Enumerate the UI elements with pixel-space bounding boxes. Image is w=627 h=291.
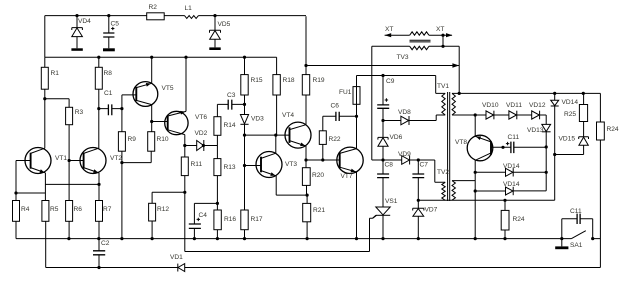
svg-text:R17: R17 bbox=[251, 216, 263, 223]
svg-text:R5: R5 bbox=[50, 206, 59, 213]
svg-text:R12: R12 bbox=[157, 206, 169, 213]
svg-text:VT2: VT2 bbox=[110, 155, 122, 162]
svg-text:VT6: VT6 bbox=[195, 114, 207, 121]
svg-text:VT4: VT4 bbox=[282, 112, 294, 119]
svg-text:R20: R20 bbox=[312, 172, 324, 179]
svg-text:FU1: FU1 bbox=[339, 89, 352, 96]
svg-text:L1: L1 bbox=[185, 5, 193, 12]
svg-text:R16: R16 bbox=[224, 216, 236, 223]
svg-text:VD9: VD9 bbox=[398, 151, 411, 158]
svg-text:TV3: TV3 bbox=[397, 54, 409, 61]
svg-text:R18: R18 bbox=[283, 77, 295, 84]
svg-text:VT7: VT7 bbox=[341, 173, 353, 180]
svg-text:R22: R22 bbox=[329, 136, 341, 143]
svg-text:R19: R19 bbox=[313, 77, 325, 84]
svg-text:SA1: SA1 bbox=[570, 242, 583, 249]
svg-text:VD15: VD15 bbox=[559, 136, 576, 143]
svg-text:R7: R7 bbox=[103, 206, 112, 213]
svg-text:C4: C4 bbox=[199, 212, 208, 219]
svg-text:VD12: VD12 bbox=[529, 102, 546, 109]
svg-text:VD14: VD14 bbox=[562, 99, 579, 106]
svg-text:VD14: VD14 bbox=[503, 181, 520, 188]
svg-text:C1: C1 bbox=[104, 90, 113, 97]
svg-text:R9: R9 bbox=[128, 136, 137, 143]
svg-text:VT5: VT5 bbox=[162, 85, 174, 92]
svg-text:C7: C7 bbox=[420, 162, 429, 169]
svg-text:R13: R13 bbox=[224, 164, 236, 171]
svg-text:R2: R2 bbox=[149, 4, 158, 11]
svg-text:C9: C9 bbox=[386, 78, 395, 85]
svg-text:R8: R8 bbox=[104, 70, 113, 77]
svg-text:C6: C6 bbox=[331, 103, 340, 110]
svg-text:VD8: VD8 bbox=[398, 109, 411, 116]
svg-text:R21: R21 bbox=[313, 207, 325, 214]
svg-text:VD2: VD2 bbox=[195, 130, 208, 137]
svg-text:C3: C3 bbox=[227, 92, 236, 99]
svg-text:VD14: VD14 bbox=[503, 163, 520, 170]
svg-text:C11: C11 bbox=[508, 134, 520, 141]
svg-text:VT1: VT1 bbox=[55, 155, 67, 162]
svg-text:XT: XT bbox=[436, 26, 444, 33]
svg-text:R3: R3 bbox=[75, 109, 84, 116]
svg-text:R10: R10 bbox=[157, 136, 169, 143]
svg-text:VD4: VD4 bbox=[78, 18, 91, 25]
svg-text:VD10: VD10 bbox=[482, 102, 499, 109]
svg-text:VD7: VD7 bbox=[425, 207, 438, 214]
svg-text:R14: R14 bbox=[224, 122, 236, 129]
svg-text:VD13: VD13 bbox=[527, 127, 544, 134]
svg-text:R24: R24 bbox=[607, 126, 619, 133]
svg-text:VD3: VD3 bbox=[251, 116, 264, 123]
svg-text:R11: R11 bbox=[191, 161, 203, 168]
svg-text:VD5: VD5 bbox=[218, 21, 231, 28]
svg-text:R1: R1 bbox=[51, 70, 60, 77]
svg-text:R6: R6 bbox=[74, 206, 83, 213]
svg-text:R24: R24 bbox=[513, 216, 525, 223]
svg-text:R25: R25 bbox=[564, 111, 576, 118]
svg-text:TV2: TV2 bbox=[437, 169, 449, 176]
svg-text:R15: R15 bbox=[251, 77, 263, 84]
svg-text:C11: C11 bbox=[570, 208, 582, 215]
svg-text:TV1: TV1 bbox=[437, 83, 449, 90]
svg-text:VT3: VT3 bbox=[285, 161, 297, 168]
svg-text:VD1: VD1 bbox=[170, 254, 183, 261]
svg-text:VD11: VD11 bbox=[506, 102, 522, 109]
svg-text:VS1: VS1 bbox=[385, 198, 398, 205]
svg-text:XT: XT bbox=[385, 26, 393, 33]
svg-text:C8: C8 bbox=[385, 162, 394, 169]
svg-text:C5: C5 bbox=[111, 21, 120, 28]
svg-text:R4: R4 bbox=[21, 206, 30, 213]
svg-text:VT8: VT8 bbox=[455, 139, 467, 146]
svg-text:C2: C2 bbox=[101, 240, 110, 247]
svg-text:VD6: VD6 bbox=[390, 134, 403, 141]
